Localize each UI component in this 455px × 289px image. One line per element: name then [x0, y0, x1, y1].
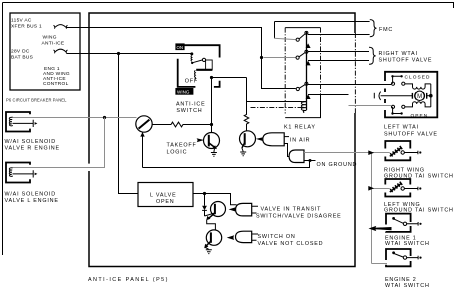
arrow into right wing ground TAI switch: [368, 150, 374, 155]
dash-dot mechanical link: [251, 107, 304, 109]
svg-text:VALVE NOT CLOSED: VALVE NOT CLOSED: [258, 241, 324, 247]
label ON (inverse): [175, 43, 184, 50]
relay pole 1 open terminal: [306, 43, 311, 48]
svg-text:LOGIC: LOGIC: [167, 149, 188, 155]
ground of solenoid R: [13, 120, 34, 127]
valve position contacts closed: [391, 75, 393, 77]
node junction CB2/valve-open feed: [117, 52, 120, 55]
svg-text:WTAI SWITCH: WTAI SWITCH: [385, 241, 430, 247]
left wing ground TAI switch box: [385, 179, 410, 197]
svg-text:OPEN: OPEN: [156, 199, 174, 205]
wire solenoid R to transistor T1: [13, 117, 137, 119]
brace FMC: [370, 20, 377, 37]
arrow T4 to gate G4: [227, 235, 235, 240]
svg-text:ANTI-ICE PANEL (P5): ANTI-ICE PANEL (P5): [88, 277, 169, 283]
engine 1 WTAI switch box: [386, 214, 411, 232]
solenoid valve L engine box: [6, 163, 30, 183]
svg-text:BAT BUS: BAT BUS: [11, 55, 33, 61]
node junction solenoid wires: [103, 116, 106, 119]
relay pole 2 open terminal: [306, 61, 311, 66]
svg-text:115V AC: 115V AC: [11, 18, 32, 24]
svg-text:CLOSED: CLOSED: [405, 75, 431, 81]
wire K1 coil feed: [247, 101, 303, 103]
switch cam bar: [196, 69, 212, 71]
engine 2 WTAI switch box: [386, 249, 411, 266]
svg-text:VALVE L ENGINE: VALVE L ENGINE: [5, 198, 59, 204]
relay pole 3: [260, 56, 263, 59]
svg-text:SWITCH ON: SWITCH ON: [258, 234, 296, 240]
circuit breaker panel box: [10, 13, 80, 90]
ground under T5: [242, 148, 243, 152]
node switch output junction: [210, 76, 213, 79]
transistor T1: [136, 116, 152, 132]
transistor T3: [211, 202, 226, 217]
page border left: [2, 3, 4, 256]
arrow T3 to gate G3: [229, 207, 237, 212]
switch arm: [191, 62, 193, 64]
svg-text:XFER BUS 1: XFER BUS 1: [11, 24, 42, 30]
switch spring upper: [190, 56, 193, 62]
svg-text:M: M: [417, 94, 422, 100]
wire to gate G3 top input: [205, 194, 237, 205]
svg-text:RIGHT WTAI: RIGHT WTAI: [379, 51, 418, 57]
label WING (inverse): [175, 88, 193, 95]
L VALVE OPEN box: [138, 183, 193, 207]
wire top to FMC: [275, 21, 370, 23]
transistor T4: [206, 230, 221, 245]
wing anti-ice switch bracket: [178, 45, 220, 87]
coil W/AI solenoid R: [9, 117, 13, 126]
page border top: [3, 3, 454, 9]
wire pole2 open to R WTAI valve: [308, 60, 369, 62]
circuit breaker WING ANTI-ICE: [54, 25, 68, 29]
svg-text:K1 RELAY: K1 RELAY: [284, 124, 316, 130]
gate G1 output arrow into T5 base: [256, 137, 263, 141]
wire solenoid L riser: [13, 118, 105, 168]
relay K1 enclosure: [284, 28, 286, 114]
motor M: [373, 93, 375, 99]
svg-text:FMC: FMC: [379, 27, 393, 33]
switch spring lower: [194, 70, 197, 79]
svg-text:VALVE IN TRANSIT: VALVE IN TRANSIT: [261, 206, 322, 212]
wire G2 output to G1 input: [284, 144, 289, 157]
winding open: [405, 102, 431, 107]
svg-text:VALVE R ENGINE: VALVE R ENGINE: [5, 146, 60, 152]
svg-text:ON GROUND: ON GROUND: [317, 162, 358, 168]
gray bus to ground TAI switches: [357, 153, 390, 264]
relay pole 1: [274, 22, 276, 39]
wire down to L VALVE OPEN box: [119, 54, 139, 194]
switch cam box: [206, 60, 213, 70]
winding close: [405, 84, 431, 89]
wire T3 emitter to T4: [207, 220, 216, 230]
transistor T5 K1 driver: [240, 131, 256, 147]
svg-text:W/AI SOLENOID: W/AI SOLENOID: [5, 139, 56, 145]
svg-text:WTAI SWITCH: WTAI SWITCH: [385, 283, 430, 289]
svg-text:IN AIR: IN AIR: [290, 138, 310, 144]
svg-text:ENGINE 2: ENGINE 2: [385, 277, 417, 283]
transistor T2 takeoff logic clamp: [204, 133, 220, 149]
svg-text:ON: ON: [177, 45, 184, 50]
svg-text:ANTI-ICE: ANTI-ICE: [42, 41, 65, 47]
solenoid valve R engine box: [6, 112, 30, 132]
relay pole 2: [264, 57, 296, 59]
bold arrow engine 1: [374, 227, 392, 230]
node switch input contact: [190, 52, 193, 55]
left WTAI shutoff valve box: [385, 72, 437, 118]
wire gray to valve open winding: [349, 105, 392, 107]
wire switch output right: [212, 77, 247, 79]
svg-text:ANTI-ICE: ANTI-ICE: [176, 101, 205, 107]
wire pole3 open stub: [308, 94, 349, 96]
circuit breaker ENG 1 AND WING ANTI-ICE CONTROL: [54, 49, 68, 53]
relay K1 contact bus: [306, 32, 308, 110]
brace RIGHT WTAI SHUTOFF VALVE: [369, 47, 376, 64]
svg-text:SHUTOFF VALVE: SHUTOFF VALVE: [379, 58, 433, 64]
svg-text:CONTROL: CONTROL: [43, 81, 69, 87]
wire switch output down: [211, 78, 213, 133]
wire pole2 to R WTAI valve: [308, 51, 369, 53]
ground under T2: [213, 149, 216, 153]
thermal switch element: [390, 182, 402, 192]
svg-text:SWITCH: SWITCH: [176, 108, 202, 114]
svg-text:RIGHT WING: RIGHT WING: [384, 168, 425, 174]
wire L VALVE OPEN output: [193, 193, 205, 195]
gate G1 (IN AIR): [263, 133, 284, 146]
svg-text:WING: WING: [43, 35, 57, 41]
resistor R2 vertical: [244, 78, 249, 131]
valve position contacts open: [391, 105, 394, 108]
wire 28V DC from CB2 to switch: [67, 53, 191, 55]
svg-text:SHUTOFF VALVE: SHUTOFF VALVE: [384, 132, 438, 138]
coil W/AI solenoid L: [9, 168, 13, 177]
diode D1: [204, 194, 206, 206]
anti-ice panel P5 box: [89, 13, 355, 267]
svg-text:28V DC: 28V DC: [11, 49, 30, 55]
svg-text:TAKEOFF: TAKEOFF: [167, 142, 197, 148]
relay pole 3 open terminal: [306, 94, 311, 99]
svg-text:OPEN: OPEN: [411, 113, 429, 119]
ground of solenoid L: [13, 170, 34, 177]
gate G4: [236, 231, 252, 242]
wire G2 input on-ground stub: [304, 160, 316, 162]
wire G2 input from right (gray): [304, 152, 357, 154]
panel right edge dash-dot section: [354, 33, 356, 113]
gate G1 input stub IN AIR: [284, 136, 289, 138]
right wing ground TAI switch box: [385, 141, 410, 160]
svg-text:P6 CIRCUIT BREAKER PANEL: P6 CIRCUIT BREAKER PANEL: [6, 98, 67, 103]
wire pole3 to valve motor closed winding: [308, 84, 391, 86]
gate G2 (ON GROUND): [289, 150, 304, 163]
wire pole1 to FMC: [308, 34, 370, 36]
wire T1 emitter to gate G2: [143, 161, 310, 168]
ground under T4: [205, 247, 208, 249]
resistor R1: [152, 122, 211, 127]
thermal switch element: [390, 146, 402, 156]
svg-text:W/AI SOLENOID: W/AI SOLENOID: [5, 192, 56, 198]
panel edge gap for solenoid L wire: [88, 164, 91, 171]
svg-text:LEFT WTAI: LEFT WTAI: [384, 124, 419, 130]
node junction at switch riser: [210, 123, 213, 126]
wire T1 emitter down: [142, 133, 144, 168]
gate G3: [236, 203, 252, 216]
svg-text:WING: WING: [177, 90, 190, 95]
svg-text:L VALVE: L VALVE: [150, 192, 176, 198]
wire 115V AC from CB1 to relay column: [67, 28, 262, 58]
relay K1 coil: [301, 102, 306, 113]
svg-text:OFF: OFF: [185, 79, 198, 85]
arrow into left wing ground TAI switch: [368, 186, 374, 191]
svg-text:SWITCH/VALVE DISAGREE: SWITCH/VALVE DISAGREE: [256, 213, 342, 219]
